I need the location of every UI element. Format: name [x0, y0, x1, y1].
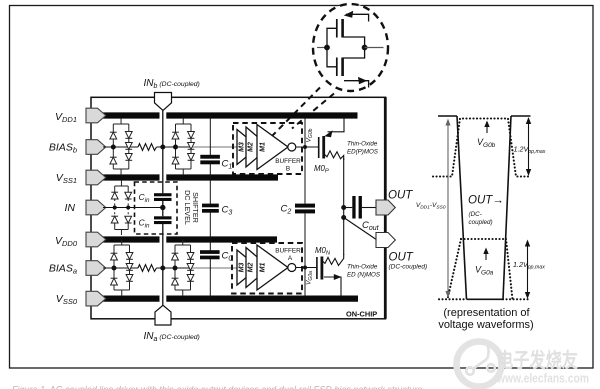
wire node to Cout	[344, 207, 353, 209]
wire Cin middle connections	[162, 201, 164, 216]
wire INa vertical	[162, 224, 164, 306]
inset output node	[362, 45, 368, 51]
pad BIASa	[86, 261, 106, 276]
wire BIASa to buffer A (gray)	[192, 267, 238, 269]
svg-text:OUT→: OUT→	[468, 195, 504, 207]
ESD diode network D2 (BIASb right)	[172, 119, 194, 176]
svg-text:www.elecfans.com: www.elecfans.com	[496, 371, 589, 386]
svg-text:OUT: OUT	[389, 252, 414, 264]
M0P source arrowhead	[324, 130, 332, 137]
M0N source arrowhead	[334, 274, 342, 280]
svg-text:(DC-coupled): (DC-coupled)	[389, 264, 428, 271]
svg-text:A: A	[288, 255, 293, 262]
M0N source wire to VSS0	[324, 277, 341, 296]
watermark elecfans (light gray)	[457, 342, 590, 387]
capacitor column line	[209, 116, 211, 299]
capacitor C1	[200, 155, 220, 164]
svg-text:M3: M3	[239, 263, 246, 273]
VG0b waveform dotted	[433, 119, 531, 177]
pad INa (bottom)	[155, 305, 171, 325]
pad VDD0	[86, 232, 106, 247]
chip boundary box	[91, 97, 386, 318]
arrow VDD1-VSS0 (long)	[447, 121, 449, 296]
OUT waveform solid top-right segment	[511, 115, 531, 117]
wire INb vertical	[162, 111, 164, 194]
svg-text:voltage waveforms): voltage waveforms)	[438, 319, 533, 331]
pad VDD1	[86, 108, 106, 123]
buffer A triangle M2	[246, 248, 270, 288]
svg-text:BIASa: BIASa	[49, 263, 77, 276]
svg-text:ED (N)MOS: ED (N)MOS	[347, 272, 381, 279]
svg-text:(representation of: (representation of	[443, 307, 530, 319]
resistor R2 (BIASa)	[138, 265, 157, 272]
inset NMOS source arrowhead	[358, 77, 367, 84]
svg-text:M1: M1	[260, 142, 267, 152]
inset dashed circle	[313, 4, 388, 91]
svg-text:OUT: OUT	[388, 190, 413, 202]
label VG0a with arrow	[485, 250, 487, 261]
node output lower	[341, 215, 346, 220]
OUT waveform solid bottom segment	[467, 298, 504, 300]
svg-text:SHIFTER: SHIFTER	[191, 192, 200, 223]
svg-text:B: B	[286, 166, 290, 173]
node gate B / column	[303, 145, 307, 149]
transistor M0P channel	[322, 136, 325, 159]
ESD diode network D3 (IN row)	[111, 181, 131, 236]
inset output wire	[365, 47, 384, 49]
buffer U1 (BUFFER B) dashed box	[233, 123, 302, 174]
M0P source wire to VDD1	[328, 119, 345, 132]
inset input wire	[317, 47, 327, 49]
pad OUT (AC)	[376, 200, 395, 215]
buffer B output circle	[288, 143, 296, 151]
wire node to OUT2 (diagonal)	[344, 218, 377, 241]
capacitor Cout	[352, 196, 362, 219]
svg-text:ON-CHIP: ON-CHIP	[346, 310, 377, 319]
pad OUT (DC)	[376, 233, 395, 248]
svg-text:M1: M1	[260, 263, 267, 273]
inset drain wires	[343, 37, 365, 58]
inset PMOS source arrowhead	[344, 11, 354, 18]
node output upper	[341, 205, 346, 210]
node INb/BIASb junction	[160, 145, 165, 150]
OUT waveform solid top-left segment	[438, 115, 457, 117]
node INa/BIASa junction	[160, 266, 165, 271]
wire BIASb row	[103, 146, 192, 148]
svg-text:M3: M3	[239, 142, 246, 152]
pad VSS1	[86, 170, 106, 185]
pad INb (top)	[155, 93, 172, 111]
callout wedge dashed line 1	[272, 88, 321, 137]
capacitor Cin lower	[154, 216, 172, 224]
svg-text:ED(P)MOS: ED(P)MOS	[347, 149, 379, 156]
transistor M0P gate bar	[318, 137, 320, 158]
buffer A triangle M1	[257, 245, 288, 290]
resistor R3 (M0P drain)	[324, 151, 344, 160]
resistor R1 (BIASb)	[138, 144, 157, 151]
ESD diode network D1 (BIASb left)	[110, 119, 132, 176]
node gate A / column	[303, 266, 307, 270]
capacitor C3	[202, 204, 219, 213]
bus VSS1	[103, 174, 278, 180]
DC level shifter dashed box	[135, 182, 178, 234]
svg-text:BUFFER: BUFFER	[275, 158, 301, 165]
pad VSS0	[86, 291, 106, 306]
buffer B triangle M2	[246, 127, 270, 167]
transistor M0N gate bar	[316, 257, 318, 279]
bus VSS0	[103, 296, 358, 302]
svg-text:DC LEVEL: DC LEVEL	[183, 190, 192, 225]
label VG0b with arrow	[486, 123, 488, 134]
output node column	[343, 158, 345, 255]
wire IN row	[103, 207, 161, 209]
wire BIASa row	[103, 267, 192, 269]
svg-text:coupled): coupled)	[469, 219, 493, 226]
inset PMOS channel	[341, 19, 344, 38]
buffer A output circle	[288, 264, 296, 272]
inset PMOS source wire	[346, 14, 369, 21]
bus VDD0	[103, 236, 277, 242]
capacitor C2	[295, 204, 315, 214]
svg-text:M2: M2	[248, 142, 255, 152]
svg-text:BUFFER: BUFFER	[275, 248, 301, 255]
buffer B triangle M3	[237, 130, 259, 165]
svg-text:电子发烧友: 电子发烧友	[497, 348, 578, 372]
callout wedge dashed line 2	[292, 94, 334, 129]
inset PMOS gate bar	[336, 19, 338, 38]
VG0a waveform dotted	[439, 239, 530, 299]
wire buffer B out to M0P gate	[296, 146, 319, 148]
svg-text:Figure 1. AC-coupled line driv: Figure 1. AC-coupled line driver with th…	[12, 385, 422, 389]
svg-text:IN: IN	[65, 202, 76, 214]
gate bias column (VDD1 to VSS0 through C2)	[304, 119, 306, 296]
pad BIASb	[86, 140, 106, 155]
pad IN	[86, 200, 106, 215]
capacitor Cin upper	[154, 193, 172, 201]
wire Cout to OUT pad	[362, 207, 377, 209]
OUT waveform right edge	[503, 116, 511, 299]
arrow 1.2Vpp bottom	[527, 242, 529, 298]
wire BIASb to buffer B (gray)	[192, 146, 239, 148]
bus VDD1	[103, 112, 358, 118]
svg-text:M2: M2	[248, 263, 255, 273]
OUT waveform left edge	[457, 116, 467, 299]
wire buffer A out to M0N gate	[296, 267, 317, 269]
svg-text:Thin-Oxide: Thin-Oxide	[347, 264, 378, 271]
ESD diode network D4 (BIASa left)	[111, 240, 133, 297]
buffer U2 (BUFFER A) dashed box	[232, 243, 302, 294]
arrow 1.2Vpp top	[528, 119, 530, 174]
inset input node	[324, 45, 330, 51]
svg-text:BIASb: BIASb	[49, 142, 77, 155]
capacitor C0	[200, 250, 220, 259]
buffer A triangle M3	[237, 250, 259, 285]
transistor M0N channel	[320, 257, 323, 280]
inset NMOS gate bar	[336, 58, 338, 77]
ESD diode network D5 (BIASa right)	[172, 240, 194, 297]
svg-text:Thin-Oxide: Thin-Oxide	[347, 141, 378, 148]
chip right border (thick)	[384, 97, 387, 319]
resistor R4 (M0N drain)	[322, 254, 344, 265]
inset gate connector	[327, 28, 337, 67]
inset NMOS channel	[341, 58, 344, 77]
svg-text:(DC-: (DC-	[469, 211, 482, 218]
buffer B triangle M1	[257, 125, 288, 170]
inset NMOS source wire	[344, 81, 369, 88]
node Cin center	[160, 205, 165, 210]
